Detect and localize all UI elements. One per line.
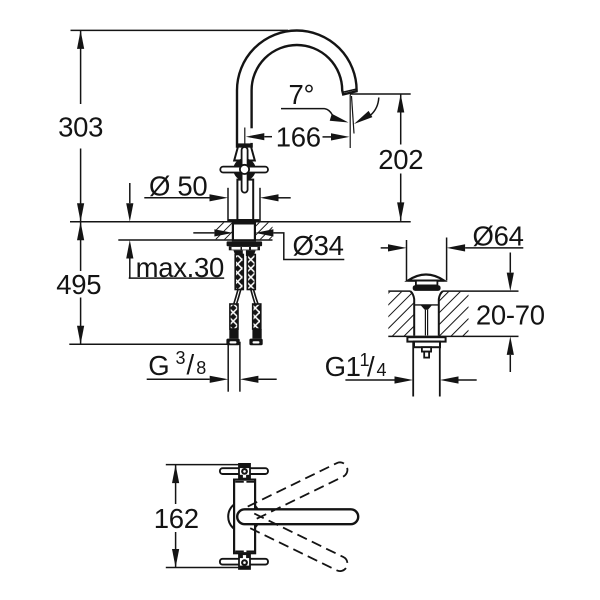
svg-text:G1: G1 — [325, 351, 361, 382]
handle hub circle — [234, 159, 254, 179]
counter hatch right block — [255, 223, 273, 240]
svg-text:7°: 7° — [289, 79, 315, 110]
svg-text:/: / — [367, 351, 375, 382]
top view: spout solid — [237, 509, 358, 524]
svg-text:Ø 50: Ø 50 — [149, 170, 207, 201]
spout tube — [237, 31, 357, 147]
drain backplate — [407, 337, 445, 341]
upper supply studs — [235, 255, 255, 290]
svg-text:/: / — [187, 349, 195, 380]
drain tailpipe — [412, 342, 414, 397]
handle vertical arm — [242, 147, 248, 193]
drain: dimension diameter 64 — [406, 240, 408, 281]
dimension max.30 — [129, 183, 131, 203]
outlet vertical reference line — [349, 95, 351, 149]
svg-text:162: 162 — [154, 503, 199, 534]
dimension 202 — [350, 93, 411, 95]
svg-text:303: 303 — [58, 112, 103, 143]
dimension 20-70 — [509, 253, 511, 273]
drain counter bottom line — [388, 335, 518, 337]
top view: spout swung dashed down — [248, 514, 350, 574]
handle center cap — [240, 165, 249, 174]
riser junction band — [236, 143, 252, 146]
svg-text:202: 202 — [378, 144, 423, 175]
dimension G 3/8 — [227, 342, 229, 392]
bottom reference line (supply connection level) — [69, 343, 240, 345]
locknut — [227, 241, 263, 246]
dimension 495 — [80, 222, 82, 345]
top view: lower cross handle — [220, 559, 268, 565]
svg-text:3: 3 — [176, 348, 186, 368]
svg-text:max.30: max.30 — [136, 252, 224, 283]
drain rod guide — [422, 347, 431, 351]
svg-text:20-70: 20-70 — [476, 299, 545, 330]
patch hiding inner riser edge — [250, 128, 253, 143]
drain backnut — [414, 342, 440, 348]
drain counter top line — [388, 290, 410, 292]
top extension line (spout top level) — [71, 29, 289, 31]
top view: spout swung dashed up — [248, 460, 350, 520]
svg-text:4: 4 — [377, 360, 387, 380]
dimension G1 1/4 — [345, 379, 394, 381]
drain o-ring — [413, 285, 441, 291]
dimension diameter 50 — [227, 188, 229, 222]
counter hatch left block — [216, 223, 233, 240]
handle horizontal arm — [220, 167, 268, 173]
top view: dimension 162 — [166, 464, 240, 466]
connector feet — [226, 339, 262, 346]
drain funnel — [410, 291, 414, 336]
top view: body — [234, 480, 255, 554]
handle neck — [234, 147, 255, 161]
lower supply studs — [229, 304, 261, 339]
top view: body circle — [228, 501, 259, 532]
svg-text:495: 495 — [56, 269, 101, 300]
outlet tilted 7deg line — [352, 96, 355, 134]
svg-text:8: 8 — [196, 358, 206, 378]
base flange — [229, 219, 260, 222]
top view: upper cross handle — [220, 468, 268, 474]
svg-text:G: G — [148, 350, 169, 381]
dimension 166 — [244, 128, 246, 144]
counter bottom line max.30 level — [118, 239, 272, 241]
dimension diameter 34 leader — [193, 232, 214, 234]
drain plug dome — [408, 274, 444, 280]
drain plug neck — [416, 281, 438, 286]
cartridge column — [237, 180, 253, 220]
drain rod stem — [424, 352, 429, 358]
collar — [229, 246, 260, 250]
svg-text:166: 166 — [276, 121, 321, 152]
drain valve seat — [420, 305, 432, 310]
drain inner shoulder — [414, 304, 439, 306]
counter top line (main view) — [70, 221, 411, 223]
svg-text:Ø34: Ø34 — [293, 230, 344, 261]
body taper below collar — [233, 250, 242, 256]
flexible hose bends — [234, 290, 259, 305]
drain counter hatch — [388, 292, 414, 336]
7deg angle arc — [371, 98, 379, 116]
dimension 303 — [80, 30, 82, 221]
shank through counter — [233, 223, 255, 240]
svg-text:Ø64: Ø64 — [473, 220, 524, 251]
aerator rim line — [343, 89, 356, 92]
